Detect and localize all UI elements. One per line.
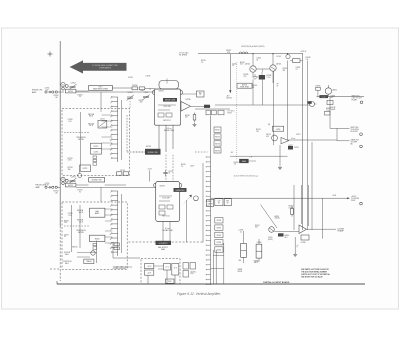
bottom-left wires <box>77 241 140 264</box>
svg-text:750: 750 <box>289 147 292 149</box>
svg-text:R4756: R4756 <box>234 162 239 164</box>
svg-text:11: 11 <box>110 145 112 147</box>
CH1 block left labels <box>139 100 144 104</box>
CH2 atten transistor Q4765 <box>91 250 95 255</box>
CH1 variable capacitor C4702 <box>69 83 76 90</box>
svg-text:R4748: R4748 <box>267 75 272 77</box>
svg-text:K4730: K4730 <box>146 146 151 148</box>
CH1 delay line dark label <box>163 98 177 102</box>
top net annotation <box>241 46 265 48</box>
CH1 input coupling caps <box>45 91 60 93</box>
svg-text:1 K: 1 K <box>181 166 183 168</box>
series peaking coil L4740 <box>226 50 248 54</box>
label FROM CH1 input <box>32 90 43 94</box>
delay line input transistor Q4833 <box>308 101 317 106</box>
svg-text:AMP: AMP <box>36 186 41 189</box>
svg-text:L4727: L4727 <box>190 166 194 168</box>
svg-text:CR4721: CR4721 <box>159 90 165 92</box>
svg-text:C4701: C4701 <box>45 88 50 90</box>
CH2 atten inner labels <box>68 213 73 217</box>
svg-text:R4732: R4732 <box>215 137 220 139</box>
CH2 ladder pin labels <box>110 192 112 250</box>
CH2 inline caps <box>117 170 129 175</box>
mid amp inductor box L4756 <box>268 124 284 131</box>
svg-text:R4743: R4743 <box>240 62 245 64</box>
svg-text:SEE SUPPLY: SEE SUPPLY <box>158 247 169 249</box>
svg-text:L4703: L4703 <box>146 76 151 78</box>
svg-text:TO DIODE GATE & SWEEP TRIG: TO DIODE GATE & SWEEP TRIG <box>92 64 118 67</box>
power box +15V <box>145 264 154 269</box>
svg-text:.01: .01 <box>232 65 234 67</box>
svg-text:L4746: L4746 <box>277 56 281 58</box>
svg-text:Q4844: Q4844 <box>331 109 336 111</box>
svg-text:K4751: K4751 <box>68 185 73 187</box>
CH1 atten mid dashed <box>64 131 90 133</box>
svg-text:12: 12 <box>110 244 112 246</box>
CH1 atten box3 <box>80 165 91 172</box>
label -8V decoupled <box>226 64 236 100</box>
CH1 atten trimmer box <box>98 118 107 128</box>
svg-text:DELAY LINE: DELAY LINE <box>165 99 176 102</box>
CH2 lower input wire <box>76 187 156 202</box>
svg-text:PICKOFF: PICKOFF <box>351 131 358 133</box>
+225V rail label <box>300 51 307 53</box>
svg-text:C4758: C4758 <box>68 213 73 215</box>
svg-text:10 K: 10 K <box>64 222 67 224</box>
svg-text:FIL (PWR): FIL (PWR) <box>179 55 187 57</box>
partial board label <box>263 281 290 284</box>
CH2 inverter dark label <box>174 188 187 192</box>
label FROM CH2 input <box>36 185 47 189</box>
svg-text:802 M: 802 M <box>238 271 243 273</box>
vert sig out annotation <box>352 96 363 104</box>
svg-text:CR4771: CR4771 <box>160 186 166 188</box>
delay line wire <box>215 104 310 106</box>
CH2 output box <box>207 199 214 206</box>
svg-text:R4762: R4762 <box>217 235 222 237</box>
CH2 attenuator dashed enclosure <box>62 202 127 269</box>
svg-text:CR4761: CR4761 <box>72 247 78 249</box>
bottom border line <box>57 281 365 284</box>
output ground <box>293 237 298 256</box>
svg-text:Q4744: Q4744 <box>245 64 250 66</box>
svg-text:C4759: C4759 <box>64 235 69 237</box>
CH2 input coupling caps <box>45 186 60 188</box>
interconnect stack boxes <box>214 127 221 153</box>
registration cross mark <box>48 52 53 57</box>
CH1 atten internal bus <box>80 112 82 171</box>
svg-text:R4761: R4761 <box>255 225 260 227</box>
svg-text:4.7: 4.7 <box>296 69 298 71</box>
figure caption <box>177 292 221 296</box>
gain set dark label <box>239 159 248 163</box>
dropper line x230 <box>229 54 231 94</box>
+15V feed CH2 block <box>147 168 152 181</box>
svg-text:Q4834: Q4834 <box>332 89 337 91</box>
svg-text:C4708: C4708 <box>68 119 73 121</box>
svg-text:C4758: C4758 <box>294 147 299 149</box>
output coupling box row <box>215 199 232 206</box>
svg-text:.01: .01 <box>168 173 170 175</box>
svg-text:C4749: C4749 <box>296 67 301 69</box>
interconnect bus J4740 <box>210 116 212 286</box>
second right rail <box>306 57 311 230</box>
svg-text:R4738: R4738 <box>185 115 190 117</box>
power box -8V <box>172 264 179 276</box>
CH2 atten main box <box>90 208 105 217</box>
mid amp ground leg <box>278 145 282 169</box>
svg-text:K4712: K4712 <box>83 168 88 170</box>
sync pickoff stub <box>330 127 362 135</box>
svg-text:SEL: SEL <box>239 260 242 262</box>
CH2 gain switching boxed label <box>105 184 126 186</box>
CH1 atten box2 <box>91 149 102 154</box>
driver transistor Q4746 <box>270 54 281 72</box>
CH1 input row value labels <box>45 88 83 99</box>
svg-text:R4731: R4731 <box>215 130 220 132</box>
svg-text:(DCPL): (DCPL) <box>268 239 274 241</box>
svg-text:PRECISION: PRECISION <box>76 137 86 139</box>
CH2 delay driver rounded block <box>154 182 182 222</box>
CH2 test point <box>61 177 65 184</box>
Q4744-Q4746 base wire <box>253 69 273 105</box>
svg-text:-8 V: -8 V <box>231 152 234 154</box>
svg-text:FROM: FROM <box>331 107 336 109</box>
power box -15V <box>145 270 154 275</box>
CH1 ladder dashed link <box>133 151 145 153</box>
top cluster wire labels <box>240 56 281 66</box>
interconnect rung ticks <box>206 157 211 285</box>
svg-text:R4702: R4702 <box>54 95 59 97</box>
bus label BW <box>333 195 337 197</box>
svg-text:90: 90 <box>79 192 81 194</box>
svg-text:82: 82 <box>257 59 259 61</box>
svg-text:330: 330 <box>68 169 71 171</box>
svg-text:7 pF: 7 pF <box>45 185 48 187</box>
svg-text:T4720 SET: T4720 SET <box>163 106 171 108</box>
svg-text:TP: TP <box>277 83 279 85</box>
CH1 ladder pin labels <box>110 98 112 156</box>
power box wires <box>148 266 175 284</box>
power label sub <box>158 247 169 251</box>
svg-text:R4886: R4886 <box>254 260 259 262</box>
CH2 atten box1 <box>90 235 105 241</box>
top resistor to +225 <box>290 59 303 63</box>
output op-amp U4734 <box>299 225 336 234</box>
svg-text:C4715: C4715 <box>94 151 99 153</box>
inter-channel coupling cap C4724 <box>163 170 173 177</box>
CH2 variable capacitor C4752 <box>69 176 76 183</box>
vert sig out wire <box>317 97 365 129</box>
svg-text:C4736: C4736 <box>301 242 306 244</box>
gate pickoff stub <box>337 128 362 147</box>
power return verticals <box>211 243 224 284</box>
dark resistor R4747 <box>259 72 265 80</box>
CH1 attenuator switch ladder <box>111 96 118 162</box>
pre-driver output wire <box>274 232 299 237</box>
mid amp output wire <box>288 139 338 141</box>
svg-text:ADJ: ADJ <box>65 262 68 265</box>
svg-text:C4752: C4752 <box>71 176 76 178</box>
svg-text:C4751: C4751 <box>45 183 50 185</box>
CH1 lower input wire <box>76 92 155 109</box>
dotted auxiliary line <box>236 62 238 160</box>
bottom-left contact rows <box>114 243 120 250</box>
svg-text:(DCPL): (DCPL) <box>226 98 232 100</box>
left border line <box>59 41 61 281</box>
svg-text:R4745: R4745 <box>244 74 249 76</box>
svg-text:124: 124 <box>256 131 259 133</box>
CH1 test point TP4701 <box>60 83 65 93</box>
svg-text:+225 V: +225 V <box>300 51 307 53</box>
driver transistor Q4744 <box>245 54 256 73</box>
power dark label <box>156 241 172 245</box>
svg-text:FB AMP: FB AMP <box>338 230 345 233</box>
svg-text:C4765: C4765 <box>268 237 273 239</box>
svg-text:R4754: R4754 <box>266 134 271 136</box>
svg-text:6.2 K: 6.2 K <box>240 64 244 66</box>
CH2 attenuator switch ladder <box>111 190 118 256</box>
output transistor Q4834 <box>325 85 337 97</box>
CH2 ladder second rail <box>121 194 123 253</box>
svg-text:11: 11 <box>110 239 112 241</box>
CH2 input row value labels <box>45 183 83 194</box>
CH1 atten inner labels <box>68 119 73 123</box>
svg-text:R4715: R4715 <box>94 146 99 148</box>
CH1 input relay K4701 <box>65 89 88 93</box>
svg-text:2.2: 2.2 <box>240 231 242 233</box>
svg-text:C4746: C4746 <box>252 85 257 87</box>
svg-text:C4711: C4711 <box>100 118 105 120</box>
divider resistor pair 1 <box>239 230 247 263</box>
feedback diagonal <box>261 205 280 229</box>
svg-text:R4761: R4761 <box>217 228 222 230</box>
CH2 atten resistor text B <box>77 219 84 223</box>
CH2 atten left text clusters <box>64 221 78 249</box>
svg-text:5-25: 5-25 <box>68 215 71 217</box>
copyright micro print <box>234 175 259 178</box>
from input label <box>331 95 336 110</box>
svg-text:L4756: L4756 <box>276 129 281 131</box>
CH1 atten transistor Q4715 <box>78 172 82 178</box>
svg-text:AMP: AMP <box>32 91 37 94</box>
power dashed box <box>141 259 180 284</box>
svg-text:.01: .01 <box>252 87 254 89</box>
svg-text:453: 453 <box>266 136 269 138</box>
svg-text:C4703: C4703 <box>128 77 133 79</box>
CH2 atten precision text <box>76 230 86 234</box>
svg-text:274: 274 <box>244 76 247 78</box>
svg-text:13: 13 <box>110 248 112 250</box>
svg-text:R4711B: R4711B <box>88 123 94 125</box>
svg-text:K4701: K4701 <box>68 91 73 93</box>
svg-text:33: 33 <box>64 236 66 238</box>
output op-amp label <box>338 228 345 233</box>
CH1 atten small marks <box>93 156 97 165</box>
svg-text:T4770 SET: T4770 SET <box>162 198 170 200</box>
svg-text:7 pF: 7 pF <box>45 89 48 91</box>
CH2 atten small marks <box>93 243 97 249</box>
Q4746 side labels <box>283 67 301 72</box>
power dashed boundary top <box>129 241 204 243</box>
small box C output <box>301 235 310 244</box>
CH1 gain switching boxed label <box>89 85 132 90</box>
svg-text:C4786: C4786 <box>257 242 262 244</box>
svg-text:R4760: R4760 <box>217 220 222 222</box>
svg-text:R4757: R4757 <box>289 145 294 147</box>
svg-text:C47: C47 <box>217 201 220 203</box>
svg-text:12: 12 <box>110 150 112 152</box>
svg-text:453: 453 <box>227 52 230 54</box>
mid cluster small labels <box>256 129 299 149</box>
svg-text:910: 910 <box>331 97 334 99</box>
CH1 block bottom label <box>164 128 175 132</box>
assembly note block <box>301 268 330 278</box>
svg-text:R4835: R4835 <box>316 86 321 88</box>
signal-flow arrow to diode gate <box>70 60 127 73</box>
CH2 variable balance arrow <box>183 195 198 205</box>
svg-text:C4701: C4701 <box>127 92 132 94</box>
svg-text:81: 81 <box>218 202 220 204</box>
svg-text:13: 13 <box>110 154 112 156</box>
CH1 block right box R4728 <box>181 91 205 97</box>
svg-text:28: 28 <box>199 94 201 96</box>
CH1 atten resistor text A <box>88 113 95 118</box>
svg-text:R4723 121: R4723 121 <box>163 120 171 122</box>
svg-text:C4702: C4702 <box>71 83 76 85</box>
svg-text:R4704: R4704 <box>78 94 83 96</box>
svg-text:R4765: R4765 <box>95 239 100 241</box>
svg-text:C4744: C4744 <box>257 58 262 60</box>
svg-text:LV SUPPLY: LV SUPPLY <box>159 243 169 245</box>
svg-text:R4726: R4726 <box>181 164 186 166</box>
svg-text:PIN 8: PIN 8 <box>351 200 355 202</box>
gain set pot <box>249 157 256 162</box>
svg-text:R4752: R4752 <box>54 191 59 193</box>
divider labels <box>238 260 243 273</box>
svg-text:C4781: C4781 <box>239 230 244 232</box>
interconnect lower stack <box>215 218 223 253</box>
svg-text:10: 10 <box>110 234 112 236</box>
output resistor R4762 <box>289 206 295 217</box>
CH1 input trimmer C4705 <box>143 92 150 100</box>
CH2 input relay K4751 <box>65 183 88 187</box>
CH2 aux test circle <box>65 179 68 182</box>
svg-text:C4724: C4724 <box>168 171 173 173</box>
mid amp triangle <box>281 138 296 144</box>
svg-text:R4754: R4754 <box>78 190 83 192</box>
CH1 series resistor R4706 <box>132 85 138 90</box>
svg-text:10: 10 <box>110 140 112 142</box>
pre-driver transistor Q4764 <box>255 225 274 241</box>
CH1 attenuator dashed enclosure <box>62 109 130 176</box>
trace rotate box <box>84 259 94 264</box>
svg-text:INVERTER: INVERTER <box>175 190 185 192</box>
CH1 delay driver rounded block <box>152 81 182 126</box>
label trace sep <box>64 252 71 256</box>
svg-text:R4740: R4740 <box>201 60 206 62</box>
svg-text:C4705: C4705 <box>144 92 149 94</box>
CH1 atten box1 <box>91 143 102 149</box>
bias boxed label <box>237 83 252 88</box>
svg-text:R4733: R4733 <box>215 144 220 146</box>
CH1 atten resistor text B <box>88 123 94 127</box>
Q4834 lower box <box>325 100 334 115</box>
svg-text:R4721: R4721 <box>139 100 144 102</box>
svg-text:POWER SUPPLIES: POWER SUPPLIES <box>113 268 126 270</box>
svg-text:48.7: 48.7 <box>285 237 288 239</box>
svg-text:R47: R47 <box>199 93 202 95</box>
CH2 front-panel dashed boundary <box>50 268 60 270</box>
svg-text:82: 82 <box>227 202 229 204</box>
svg-text:R4713: R4713 <box>68 158 73 160</box>
svg-text:DELAY LINE: DELAY LINE <box>162 229 173 232</box>
svg-text:Q4746: Q4746 <box>276 64 281 66</box>
svg-text:R4758: R4758 <box>64 221 69 223</box>
power note parens <box>183 263 196 278</box>
CH1 atten left texts <box>68 158 73 171</box>
svg-text:R4750: R4750 <box>283 68 288 70</box>
svg-text:DELAY LINE: DELAY LINE <box>164 129 175 132</box>
svg-text:P470: P470 <box>168 281 172 283</box>
CH2 block bottom label <box>162 228 173 232</box>
svg-text:90: 90 <box>79 96 81 98</box>
svg-text:C4757: C4757 <box>296 134 301 136</box>
svg-text:GAIN: GAIN <box>242 160 247 163</box>
mid amp transistor <box>266 134 277 141</box>
CH1 block bottom pin wires <box>159 125 173 181</box>
top main wire <box>198 53 303 54</box>
bus annotation <box>351 196 362 205</box>
gain set labels <box>231 152 239 166</box>
svg-text:V: V <box>297 247 298 249</box>
CH2 atten mid dashed <box>64 225 90 227</box>
CH1 atten precision text <box>76 137 86 141</box>
svg-text:NORM / INV: NORM / INV <box>92 180 103 182</box>
svg-text:453: 453 <box>140 102 143 104</box>
divider resistor pair 2 <box>254 239 262 264</box>
+300V bus <box>211 197 350 199</box>
svg-text:453: 453 <box>185 117 188 119</box>
svg-text:FINE TRIM: FINE TRIM <box>240 86 249 88</box>
top cluster verticals <box>263 61 288 146</box>
top cluster extra labels <box>244 74 279 89</box>
svg-text:453: 453 <box>255 227 258 229</box>
svg-text:NORM / INV: NORM / INV <box>148 152 159 154</box>
dashed link to ladder <box>195 151 208 153</box>
svg-text:B.W.: B.W. <box>333 195 337 197</box>
svg-text:GAIN SWITCHING: GAIN SWITCHING <box>93 88 109 91</box>
U4730 emitter resistor <box>185 113 197 127</box>
CH1 volts/div boxed label <box>89 178 105 182</box>
test point circle A <box>286 54 290 59</box>
CH1 C4701 trimmer <box>127 92 134 108</box>
svg-text:+15V: +15V <box>147 168 152 170</box>
svg-text:R4836: R4836 <box>331 95 336 97</box>
termination resistor row <box>195 109 230 115</box>
CH2 atten wires <box>105 209 112 243</box>
delay line dark label <box>319 95 328 98</box>
wire R4707 to delay driver <box>145 88 155 90</box>
svg-text:R4706: R4706 <box>132 85 137 87</box>
diode CR4745 <box>253 74 258 79</box>
svg-text:R4714: R4714 <box>68 167 73 169</box>
svg-text:PRECISION: PRECISION <box>76 230 86 232</box>
inter-channel texts <box>181 164 194 168</box>
svg-text:5-25: 5-25 <box>68 121 71 123</box>
svg-text:R47: R47 <box>226 201 229 203</box>
svg-text:47: 47 <box>277 85 279 87</box>
